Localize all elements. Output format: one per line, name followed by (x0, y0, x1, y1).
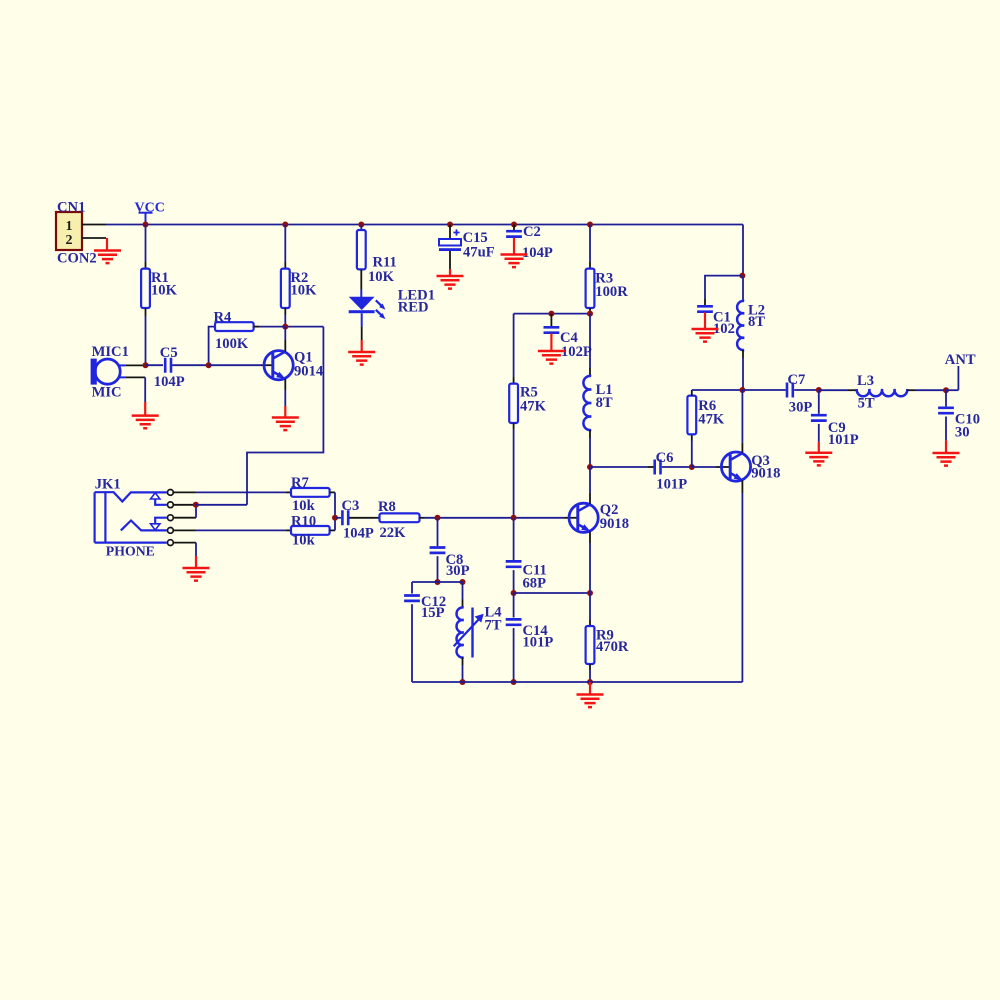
wire tank top (412, 581, 463, 583)
resistor R2 (284, 225, 286, 263)
inductor L4 (adjustable) (462, 582, 464, 600)
wire jack pin5 to ground (195, 543, 197, 556)
svg-text:101P: 101P (828, 432, 859, 448)
capacitor C7 (742, 389, 785, 391)
svg-text:5T: 5T (858, 396, 875, 412)
resistor R1 (145, 225, 147, 263)
svg-text:C6: C6 (656, 450, 674, 466)
svg-text:101P: 101P (656, 476, 687, 492)
junction C4 (548, 311, 554, 317)
svg-text:101P: 101P (523, 635, 554, 651)
svg-text:RED: RED (398, 300, 429, 316)
capacitor C3 (335, 517, 341, 519)
resistor R11 (360, 225, 362, 231)
svg-text:30P: 30P (446, 563, 470, 579)
svg-text:104P: 104P (154, 374, 185, 390)
wire R1 to MIC node (145, 316, 147, 365)
JK1 tip switch arrow (151, 493, 160, 499)
transistor Q3 (721, 452, 750, 481)
junction C8 (435, 515, 441, 521)
wire jack pin2 node (196, 504, 247, 506)
resistor R8 (375, 517, 380, 519)
capacitor C6 (590, 466, 648, 468)
junction R5/Q2 base (511, 515, 517, 521)
svg-text:100R: 100R (595, 284, 628, 300)
resistor R7 (196, 491, 287, 493)
resistor R3 (589, 225, 591, 263)
svg-text:C2: C2 (523, 224, 541, 240)
junction VCC/C2 (511, 222, 517, 228)
resistor R10 (196, 529, 287, 531)
Q2 emitter pin (589, 532, 591, 543)
junction R9/bottom rail (587, 679, 593, 685)
ground under C10 (945, 440, 947, 453)
inductor L1 (589, 314, 591, 368)
svg-text:R10: R10 (291, 514, 316, 530)
capacitor C12 (411, 582, 413, 594)
wire MIC1 output (120, 364, 126, 366)
capacitor C8 (437, 518, 439, 546)
svg-text:L3: L3 (857, 373, 874, 389)
JK1 pin 5 (168, 540, 174, 546)
ground at bottom rail (589, 682, 591, 695)
svg-text:1: 1 (66, 219, 73, 234)
JK1 sleeve contact (95, 541, 167, 543)
svg-text:47K: 47K (520, 399, 547, 415)
wire C5 to Q1 base (172, 364, 208, 366)
wire R8 to Q2 base (425, 517, 565, 519)
ground under C1 (704, 312, 706, 329)
antenna port ANT (946, 389, 958, 391)
ground at CN1 pin 2 (106, 238, 108, 251)
wire LED1 to ground (361, 313, 363, 326)
svg-text:MIC1: MIC1 (92, 344, 129, 360)
wire R10 to C3 node (334, 518, 336, 531)
svg-text:C7: C7 (788, 372, 806, 388)
svg-text:9018: 9018 (751, 466, 780, 482)
wire C6 node to Q3 base (692, 466, 716, 468)
ground under MIC1 (144, 402, 146, 416)
junction R7/R10/C3 (332, 515, 338, 521)
svg-text:JK1: JK1 (95, 477, 121, 493)
microphone MIC1 (91, 359, 97, 385)
svg-text:22K: 22K (380, 525, 407, 541)
JK1 pin 3 (168, 515, 174, 521)
wire Q1 collector node down to phone jack (247, 327, 323, 505)
wire R2 to Q1 collector node (284, 315, 286, 327)
Q3 emitter pin (741, 480, 743, 493)
junction C11/C14/Q2 emitter (511, 590, 517, 596)
ground under C2 (513, 238, 515, 255)
svg-text:470R: 470R (596, 639, 629, 655)
svg-text:100K: 100K (215, 336, 249, 352)
svg-text:10K: 10K (151, 283, 178, 299)
junction C8/C12/L4 (435, 579, 441, 585)
svg-text:C3: C3 (342, 498, 360, 514)
svg-text:10K: 10K (291, 283, 318, 299)
svg-text:R7: R7 (291, 475, 309, 491)
pin 2 of CN1 (82, 237, 106, 239)
connector CN1 (CON2) (56, 212, 82, 250)
svg-text:30: 30 (955, 424, 970, 440)
svg-text:104P: 104P (343, 525, 374, 541)
resistor R9 (589, 593, 591, 620)
wire C3 to R8 (349, 517, 375, 519)
junction VCC/C15 (447, 222, 453, 228)
svg-text:8T: 8T (596, 395, 613, 411)
capacitor C15 (electrolytic) (449, 225, 451, 240)
JK1 ring contact (121, 521, 167, 531)
capacitor C9 (818, 390, 820, 414)
junction L4/bottom rail (460, 679, 466, 685)
junction L3/C10/ANT (943, 387, 949, 393)
resistor R4 (209, 327, 215, 366)
svg-text:CN1: CN1 (57, 200, 85, 216)
junction R1/MIC/C5 (143, 362, 149, 368)
wire C11 node to Q2 emitter (514, 592, 590, 594)
wire Q1 collector node to R4 (285, 326, 323, 328)
wire L2 to Q3 collector node (742, 358, 744, 390)
JK1 pin 2 (168, 502, 174, 508)
svg-text:68P: 68P (523, 576, 547, 592)
wire R7 to C3 node (334, 492, 336, 517)
Q1 collector pin (284, 340, 286, 351)
JK1 pin 4 (168, 528, 174, 534)
Q3 collector pin (741, 442, 743, 453)
wire C12 to bottom rail (411, 604, 413, 682)
capacitor C4 (550, 314, 552, 327)
svg-text:10k: 10k (292, 533, 316, 549)
svg-text:R8: R8 (378, 499, 396, 515)
svg-text:C5: C5 (160, 345, 178, 361)
svg-text:R4: R4 (214, 310, 233, 326)
svg-text:PHONE: PHONE (106, 544, 155, 559)
svg-text:7T: 7T (485, 618, 502, 634)
ground under C15 (449, 269, 451, 276)
Q2 collector pin (589, 493, 591, 504)
junction R4/C5/Q1 base (206, 362, 212, 368)
svg-text:10K: 10K (368, 269, 395, 285)
wire R3/C4 node (514, 313, 590, 315)
capacitor C2 (513, 225, 515, 231)
junction L2/C1 (739, 273, 745, 279)
Q1 emitter pin (284, 379, 286, 390)
svg-text:102P: 102P (561, 344, 592, 360)
JK1 pin 1 (168, 490, 174, 496)
wire MIC1 lower lead (120, 376, 126, 378)
inductor L2 (742, 276, 744, 301)
transistor Q1 (264, 351, 293, 380)
inductor L3 (819, 389, 848, 391)
junction R3/L1 (587, 311, 593, 317)
wire bottom rail (412, 681, 742, 683)
wire R5 to Q2 base node (513, 429, 515, 518)
junction L2/R6/C7 (739, 387, 745, 393)
junction jack pins 2-3 (193, 502, 199, 508)
svg-text:104P: 104P (522, 245, 553, 261)
ground under LED1 (361, 340, 363, 352)
wire C1 branch (705, 276, 742, 299)
svg-text:9018: 9018 (600, 516, 629, 532)
junction R2/R4/Q1 (282, 324, 288, 330)
wire VCC rail right corner (742, 225, 744, 277)
junction VCC/R3 (587, 222, 593, 228)
wire jack pin3 to pin2 node (195, 505, 197, 518)
JK1 tip contact (95, 492, 167, 501)
resistor R5 (513, 314, 515, 377)
svg-text:30P: 30P (789, 400, 813, 416)
ground under JK1 (195, 556, 197, 568)
junction L1/C6/Q2 collector (587, 464, 593, 470)
junction C7/C9/L3 (816, 387, 822, 393)
wire VCC rail (106, 224, 743, 226)
capacitor C14 (513, 593, 515, 618)
resistor R6 (691, 441, 693, 468)
capacitor C1 (704, 299, 706, 306)
svg-text:9014: 9014 (294, 364, 324, 380)
wire L1 to Q2 collector node (589, 438, 591, 467)
ground under C4 (550, 333, 552, 351)
wire Q3 emitter to bottom rail (741, 493, 743, 682)
svg-text:10k: 10k (292, 498, 316, 514)
junction R6/Q3 base (689, 464, 695, 470)
svg-text:MIC: MIC (92, 385, 122, 401)
wire R6 top to Q3 collector node (692, 389, 743, 391)
ground under C9 (818, 442, 820, 453)
junction VCC/R2 (282, 222, 288, 228)
svg-text:47uF: 47uF (463, 244, 495, 260)
ground under Q1 (284, 406, 286, 418)
JK1 ring switch arrow (151, 524, 160, 530)
svg-text:15P: 15P (421, 605, 445, 621)
transistor Q2 (569, 503, 598, 532)
pin 1 of CN1 (82, 224, 106, 226)
LED LED1 (360, 290, 362, 298)
capacitor C5 (146, 364, 164, 366)
capacitor C10 (945, 390, 947, 406)
junction VCC/R1 (143, 222, 149, 228)
junction VCC/R11 (358, 222, 364, 228)
svg-text:ANT: ANT (945, 352, 976, 368)
svg-text:CON2: CON2 (57, 251, 97, 267)
capacitor C11 (513, 518, 515, 560)
svg-text:8T: 8T (748, 314, 765, 330)
svg-text:47K: 47K (698, 411, 725, 427)
svg-text:2: 2 (66, 233, 73, 248)
junction C14/bottom rail (511, 679, 517, 685)
